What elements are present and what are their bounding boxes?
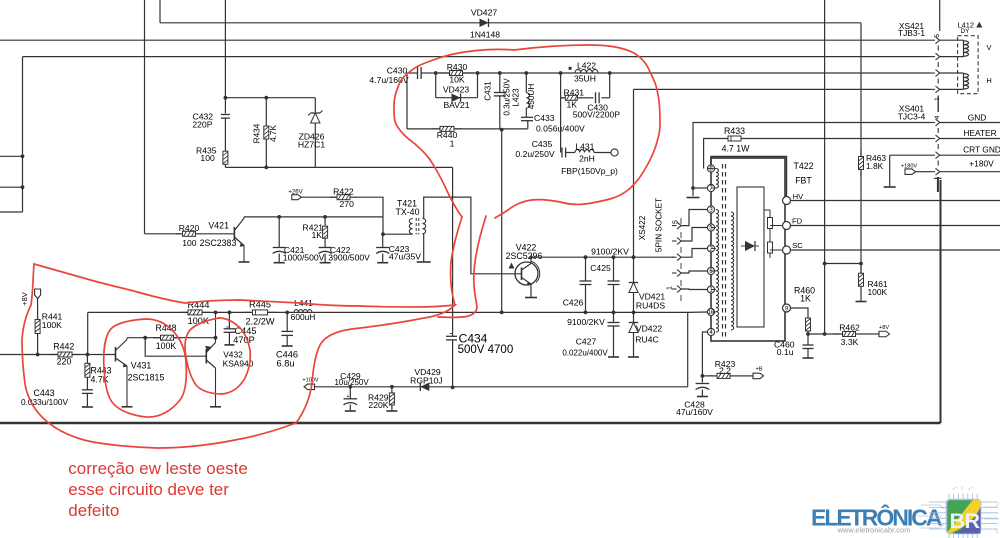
capacitor C425 — [612, 255, 616, 259]
FBT HV path — [711, 157, 787, 197]
FBT diode — [745, 241, 755, 251]
svg-text:HZ7C1: HZ7C1 — [298, 139, 325, 149]
svg-text:1: 1 — [450, 138, 455, 148]
capacitor C428 — [696, 383, 710, 385]
svg-text:RU4C: RU4C — [635, 334, 658, 344]
svg-text:VD423: VD423 — [443, 85, 469, 95]
wire R430 VD423 box — [436, 72, 478, 74]
svg-text:T422: T422 — [793, 161, 813, 171]
svg-text:+180V: +180V — [969, 159, 994, 169]
node C446 — [285, 311, 289, 315]
svg-text:R422: R422 — [333, 187, 354, 197]
resistor R435 — [224, 148, 226, 151]
svg-text:TJC3-4: TJC3-4 — [898, 112, 926, 122]
XS422 pin 3 — [672, 256, 677, 258]
svg-text:BAV21: BAV21 — [443, 100, 469, 110]
capacitor C435 — [561, 148, 563, 158]
XS401 dashes — [937, 128, 939, 133]
svg-text:100K: 100K — [868, 287, 888, 297]
svg-text:R430: R430 — [447, 62, 468, 72]
wire VD427 horizontal — [160, 22, 861, 24]
svg-text:L422: L422 — [577, 60, 596, 70]
resistor R431 — [561, 97, 566, 99]
svg-text:C433: C433 — [534, 113, 555, 123]
svg-text:9100/2KV: 9100/2KV — [591, 247, 629, 257]
svg-text:+B: +B — [756, 367, 763, 373]
FBT HV pin — [783, 197, 791, 205]
diode VD421 — [632, 255, 636, 259]
border right — [940, 180, 942, 423]
svg-text:H: H — [986, 76, 991, 85]
wire top-left vertical 2 — [159, 0, 161, 23]
svg-text:V: V — [987, 43, 992, 52]
node C431 bottom — [500, 128, 504, 132]
XS422 pin 4 — [672, 272, 677, 274]
svg-text:100: 100 — [182, 238, 197, 248]
EW circuit wire upper — [87, 312, 89, 354]
wire base V421 — [145, 233, 181, 235]
wire V432 base path — [145, 338, 205, 357]
wire C435 drop — [560, 98, 562, 153]
capacitor C432 — [221, 114, 230, 116]
wire V422 collector — [530, 257, 532, 263]
svg-text:600uH: 600uH — [291, 312, 316, 322]
svg-text:esse circuito deve ter: esse circuito deve ter — [68, 480, 229, 499]
capacitor C460 — [807, 334, 809, 345]
svg-text:0.1u: 0.1u — [777, 347, 794, 357]
svg-text:47u/35V: 47u/35V — [389, 251, 421, 261]
capacitor C431 — [499, 73, 501, 93]
logo chip blue circle — [954, 507, 981, 534]
capacitor C434 — [452, 167, 454, 336]
svg-text:GND: GND — [968, 113, 987, 123]
svg-text:BR: BR — [949, 509, 980, 533]
svg-text:defeito: defeito — [68, 501, 119, 520]
zener ZD426 — [314, 98, 316, 112]
wire x825 vertical — [824, 0, 826, 334]
svg-text:RU4DS: RU4DS — [636, 300, 665, 310]
capacitor C423 — [382, 234, 384, 247]
wire x940 top — [939, 0, 941, 31]
svg-text:2nH: 2nH — [579, 154, 595, 164]
diode VD423 — [452, 93, 461, 102]
svg-text:R420: R420 — [179, 223, 200, 233]
svg-text:2SC1815: 2SC1815 — [128, 372, 165, 382]
svg-text:100K: 100K — [156, 341, 177, 351]
inductor L441 — [294, 310, 312, 313]
svg-text:HEATER: HEATER — [963, 128, 996, 138]
red circle V431 — [104, 319, 187, 417]
svg-text:0.033u/100V: 0.033u/100V — [21, 397, 69, 407]
svg-text:+: + — [347, 394, 350, 400]
wire C431 bridge vertical — [501, 130, 503, 313]
logo chip yellow band — [947, 500, 981, 534]
svg-text:35UH: 35UH — [574, 73, 596, 83]
svg-text:C426: C426 — [563, 298, 584, 308]
wire yoke V bottom — [23, 56, 931, 58]
capacitor C443 — [86, 386, 88, 390]
FBT primary coil 8-7 — [716, 169, 718, 188]
border bottom — [0, 422, 941, 424]
node C434 bottom — [451, 386, 455, 390]
svg-text:FBT: FBT — [795, 176, 812, 186]
svg-text:R442: R442 — [53, 342, 74, 352]
wire left box lines — [0, 155, 23, 157]
svg-text:1N4148: 1N4148 — [470, 30, 500, 40]
svg-text:0.3u/250V: 0.3u/250V — [503, 78, 512, 116]
FBT right resistors — [769, 210, 771, 218]
FBT FD pin — [783, 222, 791, 230]
svg-text:10: 10 — [708, 310, 715, 316]
svg-text:www.eletronicabr.com: www.eletronicabr.com — [837, 526, 911, 535]
FBT T422 outer box — [711, 158, 785, 341]
svg-text:6.8u: 6.8u — [277, 359, 295, 369]
node jog — [823, 262, 827, 266]
node R434 top — [264, 96, 268, 100]
svg-text:0.022u/400V: 0.022u/400V — [562, 348, 608, 357]
svg-text:HV: HV — [793, 192, 804, 201]
resistor R421 — [324, 217, 326, 226]
capacitor C445 — [228, 312, 230, 328]
wire FD out — [791, 225, 1000, 227]
svg-text:3900/500V: 3900/500V — [328, 253, 370, 263]
wire R422 to T421 — [357, 197, 383, 217]
svg-text:FD: FD — [792, 216, 803, 225]
svg-text:VD422: VD422 — [636, 324, 662, 334]
resistor R429 — [390, 385, 394, 389]
wire C432 horizontal — [225, 97, 315, 99]
resistor R430 — [438, 72, 450, 74]
resistor R462 — [834, 333, 843, 335]
resistor R463 — [860, 150, 862, 157]
svg-text:C431: C431 — [484, 81, 493, 101]
svg-text:1K: 1K — [567, 99, 578, 109]
resistor R434 — [265, 98, 267, 126]
yoke V coil — [940, 39, 964, 41]
svg-text:TJB3-1: TJB3-1 — [898, 28, 925, 38]
svg-text:2.2/2W: 2.2/2W — [245, 317, 274, 327]
resistor R423 — [702, 375, 713, 377]
svg-text:100: 100 — [200, 153, 215, 163]
wire jog to C423 — [382, 217, 384, 234]
wire R433 heater — [704, 139, 727, 169]
svg-text:+8V: +8V — [879, 325, 889, 331]
svg-text:+8V: +8V — [20, 291, 29, 306]
svg-text:RGP10J: RGP10J — [410, 375, 442, 385]
FBT SC pin — [783, 246, 791, 254]
svg-text:DY: DY — [961, 28, 971, 35]
svg-text:V421: V421 — [208, 221, 229, 231]
svg-text:2.2: 2.2 — [719, 365, 731, 375]
svg-text:R434: R434 — [253, 123, 262, 143]
svg-text:R433: R433 — [724, 126, 745, 136]
node C445 — [228, 311, 232, 315]
svg-text:FBP(150Vp_p): FBP(150Vp_p) — [561, 166, 618, 176]
wire SC out — [791, 249, 1000, 251]
resistor R443 — [86, 355, 88, 364]
transistor V432 — [205, 349, 207, 364]
capacitor C427 — [613, 312, 615, 322]
resistor R442 — [50, 354, 58, 356]
svg-text:CRT GND: CRT GND — [963, 145, 1000, 155]
svg-text:3.3K: 3.3K — [841, 337, 859, 347]
svg-text:C425: C425 — [590, 263, 611, 273]
svg-text:47u/160V: 47u/160V — [676, 407, 713, 417]
inductor L431 — [566, 152, 575, 154]
red scribble top loop — [442, 45, 660, 218]
capacitor C422 — [319, 247, 332, 249]
wire yoke V top — [0, 39, 931, 41]
wire main y73 to yoke — [478, 72, 931, 74]
resistor R422 — [330, 196, 337, 198]
svg-text:R462: R462 — [839, 323, 860, 333]
svg-text:500V 4700: 500V 4700 — [458, 344, 514, 356]
node R443 — [86, 353, 90, 357]
wire snubber bottom rail — [407, 128, 528, 130]
wire R460 R462 — [806, 332, 810, 336]
wire T421 secondary top to V422 base — [423, 197, 516, 274]
svg-text:450UH: 450UH — [527, 84, 536, 110]
wire rail 354 — [0, 354, 116, 356]
resistor R444 — [180, 311, 188, 313]
svg-text:4: 4 — [934, 115, 941, 119]
node L423 — [524, 71, 528, 75]
svg-text:SC: SC — [792, 241, 803, 250]
svg-text:5: 5 — [934, 34, 941, 38]
red circle V432 — [185, 318, 250, 394]
diode VD422 — [633, 312, 635, 322]
FBT secondary winding — [731, 212, 734, 330]
wire damper top — [634, 88, 931, 90]
wire left stub vertical — [22, 57, 24, 212]
wire GND elbow — [693, 123, 931, 189]
FBT pins — [707, 165, 714, 172]
svg-text:V431: V431 — [131, 361, 152, 371]
capacitor C433 — [521, 116, 533, 118]
FBP terminal — [594, 152, 611, 154]
svg-text:100K: 100K — [42, 320, 62, 330]
capacitor C429 — [348, 385, 352, 389]
svg-text:470P: 470P — [233, 335, 254, 345]
svg-text:R431: R431 — [564, 87, 585, 97]
inductor L422 — [559, 71, 563, 75]
resistor R441 — [37, 313, 39, 320]
capacitor C446 — [286, 312, 288, 331]
svg-text:1K: 1K — [800, 293, 811, 303]
svg-text:+100V: +100V — [302, 378, 319, 384]
svg-text:500V/2200P: 500V/2200P — [573, 110, 621, 120]
red scribble tails — [438, 216, 486, 317]
svg-text:4.7 1W: 4.7 1W — [722, 144, 751, 154]
svg-text:220K: 220K — [368, 400, 388, 410]
capacitor C430b — [595, 92, 597, 103]
transistor V431 — [115, 347, 117, 362]
wire pin10 corner — [688, 312, 708, 387]
node C431 — [498, 71, 502, 75]
svg-text:10u/250V: 10u/250V — [334, 378, 369, 387]
FBT inner rect — [737, 187, 764, 327]
yoke H coil — [940, 72, 964, 74]
svg-text:5PIN SOCKET: 5PIN SOCKET — [655, 198, 664, 252]
svg-text:0.2u/250V: 0.2u/250V — [515, 149, 554, 159]
resistor R420 — [176, 233, 183, 235]
wire R435 bottom rail — [225, 166, 452, 168]
svg-text:4.7u/160V: 4.7u/160V — [369, 75, 408, 85]
svg-text:9100/2KV: 9100/2KV — [567, 317, 605, 327]
svg-text:TX-40: TX-40 — [396, 207, 420, 217]
svg-text:L423: L423 — [512, 88, 521, 107]
FBT core dashes — [722, 164, 724, 169]
svg-text:VD427: VD427 — [471, 8, 497, 18]
red scribble blob — [22, 264, 455, 448]
logo chip — [917, 486, 999, 538]
resistor R445 — [243, 311, 253, 313]
wire bottom rail +100V — [305, 386, 688, 388]
FBT winding 3-4 — [716, 210, 719, 333]
wire top-left vertical 1 — [144, 0, 146, 234]
capacitor C426 — [584, 255, 588, 259]
svg-text:C435: C435 — [532, 139, 553, 149]
capacitor C421 — [278, 217, 280, 248]
resistor R448 — [153, 337, 161, 339]
svg-text:220: 220 — [57, 356, 72, 366]
resistor R461 — [860, 264, 862, 274]
XS422 pin 2 — [672, 240, 677, 242]
wire pin4 to C428 — [702, 332, 707, 383]
wire C430 left drop — [406, 73, 408, 129]
svg-text:XS422: XS422 — [638, 215, 647, 240]
svg-text:270: 270 — [340, 199, 355, 209]
node C432 top — [224, 96, 228, 100]
svg-text:2SC5296: 2SC5296 — [506, 251, 543, 261]
FBT pin9 — [783, 304, 791, 312]
XS401 pins — [931, 122, 936, 124]
diode VD429 — [420, 383, 429, 392]
svg-text:220P: 220P — [192, 119, 212, 129]
wire T421 secondary bottom to ground — [423, 234, 424, 262]
svg-text:correção ew leste oeste: correção ew leste oeste — [68, 459, 248, 478]
XS421 dashes — [937, 46, 939, 51]
svg-text:1K: 1K — [311, 230, 322, 240]
svg-text:10K: 10K — [449, 75, 465, 85]
wire x861 vertical — [860, 23, 862, 156]
wire V422 emitter ground — [530, 284, 532, 298]
transistor V421 — [202, 233, 234, 235]
inductor L423 — [525, 73, 527, 93]
node left joins — [21, 154, 25, 158]
svg-text:2SC2383: 2SC2383 — [200, 238, 237, 248]
svg-text:4.7K: 4.7K — [269, 125, 278, 142]
svg-text:C427: C427 — [576, 336, 597, 346]
resistor R460 — [791, 308, 809, 315]
wire R448 — [127, 337, 216, 339]
resistor R440 — [432, 128, 440, 130]
wire HV out — [791, 200, 1000, 202]
diode VD427 — [480, 19, 489, 28]
CRT GND stub — [890, 154, 931, 156]
XS422 pin 5 — [672, 288, 677, 290]
wire V421 collector — [244, 216, 383, 218]
svg-text:1.8K: 1.8K — [866, 161, 884, 171]
wire R431 C430 branch — [560, 73, 562, 98]
vertical line x225 — [224, 0, 226, 114]
svg-text:1000/500V: 1000/500V — [283, 253, 325, 263]
XS422 pin 1 — [672, 225, 677, 227]
wire rail pin10 — [88, 311, 688, 313]
svg-text:L431: L431 — [575, 141, 594, 151]
